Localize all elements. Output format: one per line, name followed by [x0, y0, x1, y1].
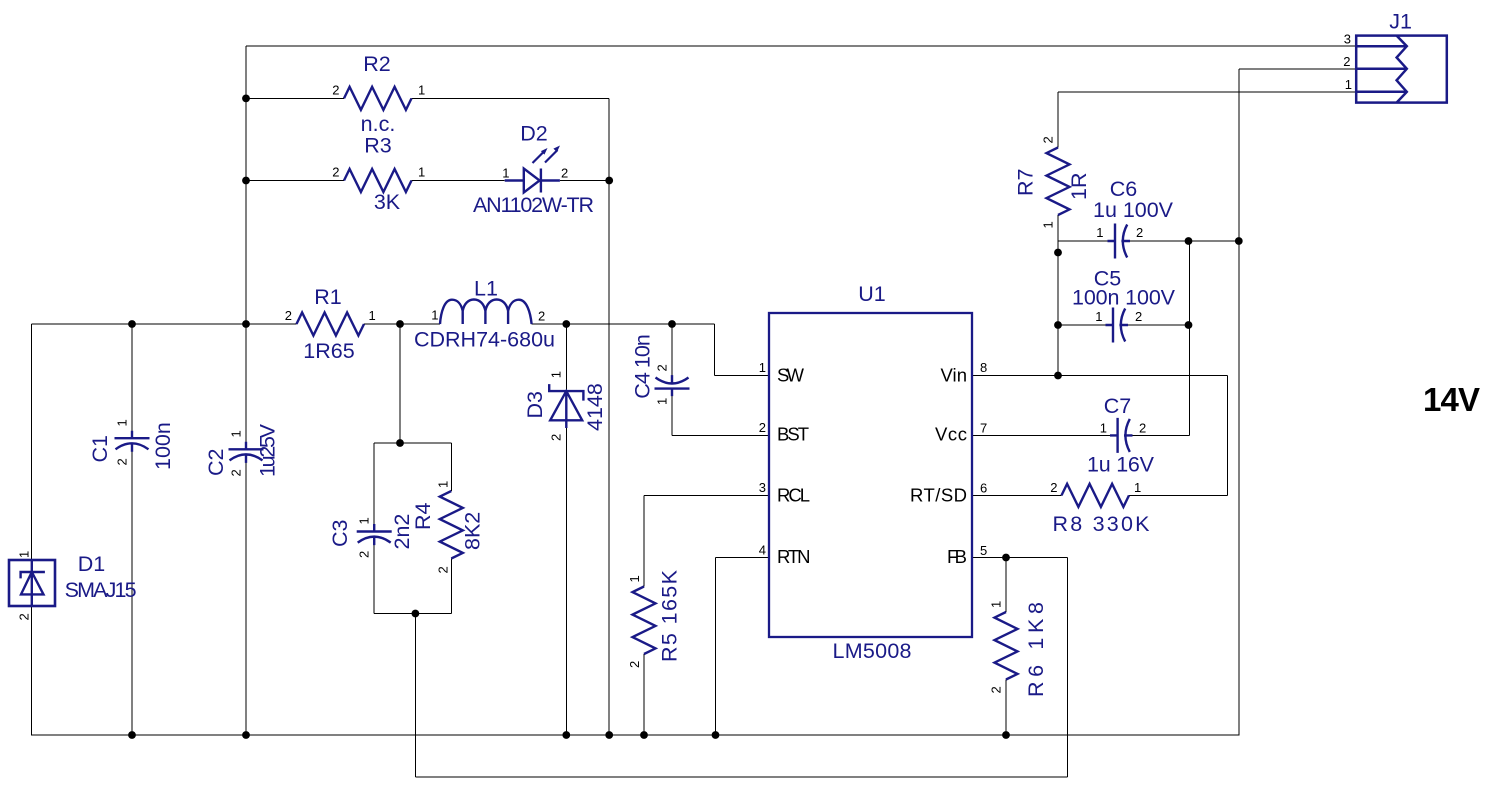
svg-text:2: 2: [17, 613, 32, 620]
svg-text:R1: R1: [314, 285, 341, 309]
svg-text:2: 2: [759, 420, 766, 435]
svg-text:4: 4: [759, 543, 766, 558]
svg-text:1: 1: [431, 308, 438, 323]
svg-text:C7: C7: [1104, 394, 1131, 418]
svg-text:1: 1: [502, 166, 509, 181]
svg-text:1: 1: [1096, 225, 1103, 240]
svg-text:L1: L1: [474, 277, 498, 301]
svg-text:2: 2: [549, 434, 564, 441]
svg-text:1: 1: [1134, 480, 1141, 495]
svg-text:14V: 14V: [1423, 381, 1480, 418]
svg-text:2: 2: [1041, 136, 1056, 143]
svg-text:2: 2: [435, 566, 450, 573]
svg-text:R2: R2: [363, 52, 390, 76]
svg-text:R8 330K: R8 330K: [1053, 512, 1151, 536]
svg-text:J1: J1: [1389, 10, 1412, 34]
svg-text:BST: BST: [777, 424, 809, 445]
svg-text:R4: R4: [411, 502, 435, 530]
svg-text:R5 165K: R5 165K: [658, 569, 682, 662]
svg-text:1: 1: [418, 165, 425, 180]
svg-text:AN1102W-TR: AN1102W-TR: [473, 193, 594, 217]
svg-text:n.c.: n.c.: [361, 112, 396, 136]
svg-text:FB: FB: [947, 546, 967, 567]
svg-text:1R65: 1R65: [303, 339, 354, 363]
svg-text:LM5008: LM5008: [833, 639, 912, 663]
svg-text:D2: D2: [520, 122, 547, 146]
svg-text:U1: U1: [858, 282, 885, 306]
svg-text:R3: R3: [364, 134, 392, 158]
svg-text:2: 2: [655, 364, 670, 371]
svg-text:1: 1: [369, 308, 376, 323]
svg-text:2: 2: [989, 686, 1004, 693]
svg-text:2: 2: [115, 458, 130, 465]
svg-text:2: 2: [1343, 54, 1350, 69]
svg-text:8K2: 8K2: [461, 512, 485, 550]
svg-text:C1: C1: [88, 435, 112, 462]
svg-text:5: 5: [980, 543, 987, 558]
svg-text:2: 2: [332, 83, 339, 98]
svg-text:3K: 3K: [374, 190, 401, 214]
svg-text:R7: R7: [1014, 169, 1038, 196]
svg-text:2: 2: [1139, 421, 1146, 436]
svg-text:100n 100V: 100n 100V: [1072, 286, 1176, 310]
svg-text:1: 1: [627, 575, 642, 582]
svg-text:RTN: RTN: [777, 546, 811, 567]
svg-text:6: 6: [980, 481, 987, 496]
svg-text:2: 2: [627, 661, 642, 668]
svg-text:2: 2: [538, 309, 545, 324]
svg-text:3: 3: [1344, 32, 1351, 47]
svg-text:2: 2: [561, 166, 568, 181]
svg-text:1: 1: [1095, 309, 1102, 324]
svg-text:C3: C3: [328, 519, 352, 547]
svg-text:1: 1: [17, 551, 32, 558]
svg-text:2: 2: [332, 165, 339, 180]
svg-text:1: 1: [1100, 421, 1107, 436]
svg-text:SMAJ15: SMAJ15: [65, 578, 137, 602]
svg-text:1: 1: [759, 360, 766, 375]
svg-text:1: 1: [435, 481, 450, 488]
svg-text:CDRH74-680u: CDRH74-680u: [414, 328, 555, 352]
svg-text:RT/SD: RT/SD: [910, 485, 967, 506]
svg-text:1: 1: [1345, 77, 1352, 92]
svg-text:1: 1: [989, 601, 1004, 608]
svg-text:Vin: Vin: [941, 365, 968, 386]
svg-text:Vcc: Vcc: [935, 424, 967, 445]
svg-text:D3: D3: [523, 391, 547, 419]
svg-text:1: 1: [229, 430, 244, 437]
svg-text:100n: 100n: [151, 422, 175, 470]
svg-text:1: 1: [549, 371, 564, 378]
svg-text:1: 1: [357, 517, 372, 524]
svg-text:1u 16V: 1u 16V: [1087, 453, 1155, 477]
svg-text:D1: D1: [78, 552, 105, 576]
svg-text:2: 2: [1050, 480, 1057, 495]
svg-text:7: 7: [980, 421, 987, 436]
svg-text:C2: C2: [204, 449, 228, 476]
svg-text:1R: 1R: [1067, 173, 1091, 200]
svg-text:2: 2: [229, 469, 244, 476]
svg-text:4148: 4148: [583, 383, 607, 431]
svg-text:RCL: RCL: [777, 485, 810, 506]
svg-text:1: 1: [1041, 221, 1056, 228]
svg-text:1: 1: [418, 83, 425, 98]
svg-text:3: 3: [759, 480, 766, 495]
svg-text:2: 2: [1136, 225, 1143, 240]
svg-text:8: 8: [980, 360, 987, 375]
svg-text:1: 1: [115, 419, 130, 426]
svg-text:1u25V: 1u25V: [256, 423, 280, 477]
svg-text:2: 2: [1135, 309, 1142, 324]
svg-text:1: 1: [655, 398, 670, 405]
svg-text:SW: SW: [777, 365, 805, 386]
svg-text:2: 2: [357, 551, 372, 558]
svg-text:1u 100V: 1u 100V: [1093, 198, 1174, 222]
svg-text:2: 2: [285, 308, 292, 323]
svg-text:C4 10n: C4 10n: [631, 334, 655, 399]
